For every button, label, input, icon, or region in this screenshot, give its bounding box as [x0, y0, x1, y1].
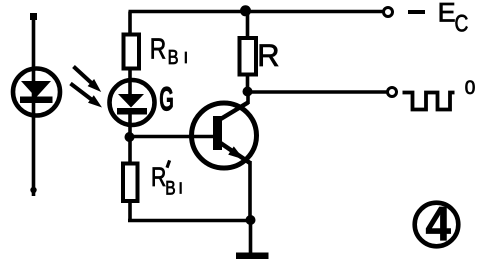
- light ray arrow 2: [71, 84, 103, 108]
- light ray arrow 1: [74, 67, 102, 93]
- wire: [30, 13, 36, 196]
- svg-text:I: I: [184, 50, 188, 67]
- wire: [246, 75, 250, 92]
- wire: [128, 201, 132, 222]
- wire: [128, 69, 132, 96]
- terminal output: [388, 88, 397, 97]
- node base junction: [125, 132, 135, 142]
- LED D1 (light source): [13, 69, 60, 116]
- wire: [128, 12, 132, 37]
- svg-text:E: E: [438, 0, 456, 27]
- figure number 4: [415, 196, 459, 251]
- terminal -Ec: [384, 8, 393, 17]
- resistor RB1: [124, 35, 140, 69]
- svg-text:0: 0: [465, 78, 476, 99]
- wire emitter: [248, 161, 252, 221]
- svg-text:I: I: [179, 181, 183, 198]
- svg-text:G: G: [159, 80, 174, 118]
- label RB1: [150, 34, 188, 68]
- svg-text:R: R: [150, 34, 166, 65]
- wire: [128, 113, 132, 165]
- transistor Q1: [192, 103, 257, 169]
- square wave symbol: [403, 93, 455, 110]
- node emitter-ground junction: [246, 215, 256, 225]
- label -Ec: [408, 0, 468, 37]
- svg-text:C: C: [455, 9, 469, 37]
- wire collector: [246, 92, 250, 105]
- svg-text:B: B: [165, 177, 175, 199]
- wire: [246, 12, 250, 39]
- wire: [249, 220, 253, 253]
- ground: [236, 253, 269, 260]
- label RB1': [151, 160, 183, 199]
- resistor RB1': [123, 164, 138, 202]
- svg-text:B: B: [168, 46, 179, 69]
- wire bottom rail: [128, 219, 251, 223]
- wire output: [248, 90, 387, 94]
- node top rail junction: [240, 5, 251, 16]
- wire top rail: [129, 10, 384, 14]
- wire base: [130, 135, 214, 139]
- svg-text:4: 4: [426, 196, 451, 251]
- node collector junction: [243, 87, 253, 97]
- resistor R: [240, 38, 257, 75]
- photodiode G: [110, 80, 155, 125]
- svg-text:R: R: [257, 38, 279, 73]
- svg-text:R: R: [151, 163, 166, 193]
